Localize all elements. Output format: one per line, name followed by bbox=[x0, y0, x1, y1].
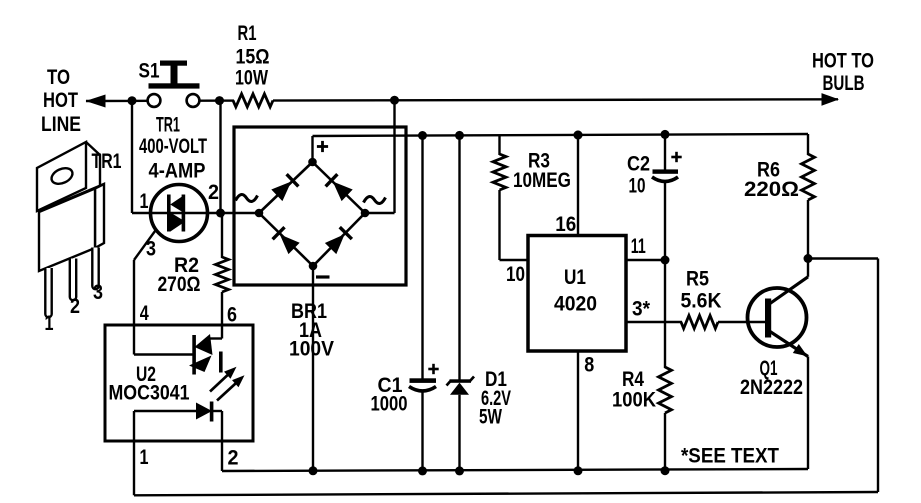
svg-text:TR1: TR1 bbox=[156, 113, 180, 136]
svg-text:1000: 1000 bbox=[371, 393, 408, 416]
svg-text:100K: 100K bbox=[612, 388, 656, 411]
svg-text:BULB: BULB bbox=[823, 72, 865, 95]
svg-text:S1: S1 bbox=[139, 60, 160, 83]
svg-text:1: 1 bbox=[140, 446, 149, 469]
svg-text:1: 1 bbox=[140, 190, 149, 213]
svg-text:10W: 10W bbox=[235, 67, 268, 90]
svg-text:220Ω: 220Ω bbox=[744, 178, 799, 201]
svg-text:3: 3 bbox=[146, 238, 156, 261]
svg-text:R1: R1 bbox=[238, 22, 257, 45]
svg-text:10: 10 bbox=[629, 175, 646, 198]
svg-text:R5: R5 bbox=[686, 268, 709, 291]
svg-text:15Ω: 15Ω bbox=[236, 46, 270, 69]
svg-text:2: 2 bbox=[228, 446, 239, 469]
svg-text:6: 6 bbox=[227, 303, 237, 326]
svg-text:5.6K: 5.6K bbox=[681, 289, 722, 312]
svg-text:2: 2 bbox=[70, 295, 80, 318]
svg-text:11: 11 bbox=[631, 235, 646, 258]
svg-text:100V: 100V bbox=[289, 338, 334, 361]
svg-text:8: 8 bbox=[584, 354, 594, 377]
svg-text:4020: 4020 bbox=[554, 293, 597, 316]
svg-text:4-AMP: 4-AMP bbox=[149, 159, 206, 182]
svg-text:TR1: TR1 bbox=[92, 150, 122, 173]
svg-text:5W: 5W bbox=[479, 406, 502, 429]
svg-text:10MEG: 10MEG bbox=[513, 169, 571, 192]
svg-text:*SEE TEXT: *SEE TEXT bbox=[681, 444, 779, 467]
svg-text:2N2222: 2N2222 bbox=[740, 376, 803, 399]
svg-text:270Ω: 270Ω bbox=[158, 273, 201, 296]
svg-text:U1: U1 bbox=[564, 266, 586, 289]
svg-text:400-VOLT: 400-VOLT bbox=[139, 135, 207, 158]
svg-text:C2: C2 bbox=[627, 153, 650, 176]
svg-text:HOT: HOT bbox=[43, 89, 78, 112]
svg-text:HOT TO: HOT TO bbox=[812, 49, 874, 72]
svg-text:LINE: LINE bbox=[41, 113, 81, 136]
svg-text:1: 1 bbox=[45, 312, 54, 335]
svg-text:2: 2 bbox=[208, 181, 219, 204]
svg-text:MOC3041: MOC3041 bbox=[109, 382, 190, 405]
svg-text:3*: 3* bbox=[632, 298, 651, 321]
svg-text:3: 3 bbox=[93, 281, 103, 304]
svg-text:4: 4 bbox=[140, 302, 149, 325]
svg-text:TO: TO bbox=[47, 66, 70, 89]
svg-text:16: 16 bbox=[555, 213, 576, 236]
svg-text:10: 10 bbox=[506, 263, 525, 286]
